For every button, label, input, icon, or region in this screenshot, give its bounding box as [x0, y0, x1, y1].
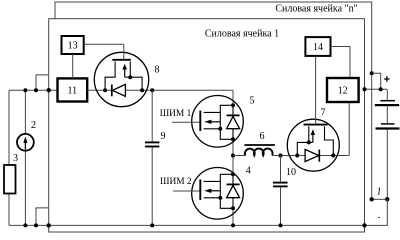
svg-text:4: 4	[246, 165, 251, 176]
svg-text:10: 10	[286, 167, 296, 178]
svg-text:Силовая ячейка 1: Силовая ячейка 1	[205, 29, 279, 40]
svg-text:2: 2	[31, 120, 36, 131]
svg-text:Силовая ячейка "n": Силовая ячейка "n"	[275, 4, 357, 15]
svg-text:ШИМ 1: ШИМ 1	[160, 109, 192, 119]
svg-text:-: -	[378, 212, 381, 222]
svg-text:8: 8	[155, 65, 160, 76]
svg-text:3: 3	[13, 153, 18, 164]
svg-text:6: 6	[260, 131, 265, 142]
svg-text:1: 1	[377, 187, 382, 198]
svg-text:ШИМ 2: ШИМ 2	[160, 177, 192, 187]
svg-text:12: 12	[338, 86, 348, 97]
svg-text:7: 7	[321, 108, 326, 119]
svg-text:5: 5	[250, 96, 255, 107]
svg-text:9: 9	[161, 131, 166, 142]
svg-text:14: 14	[313, 42, 323, 53]
svg-text:11: 11	[67, 86, 77, 97]
svg-text:13: 13	[68, 41, 78, 52]
